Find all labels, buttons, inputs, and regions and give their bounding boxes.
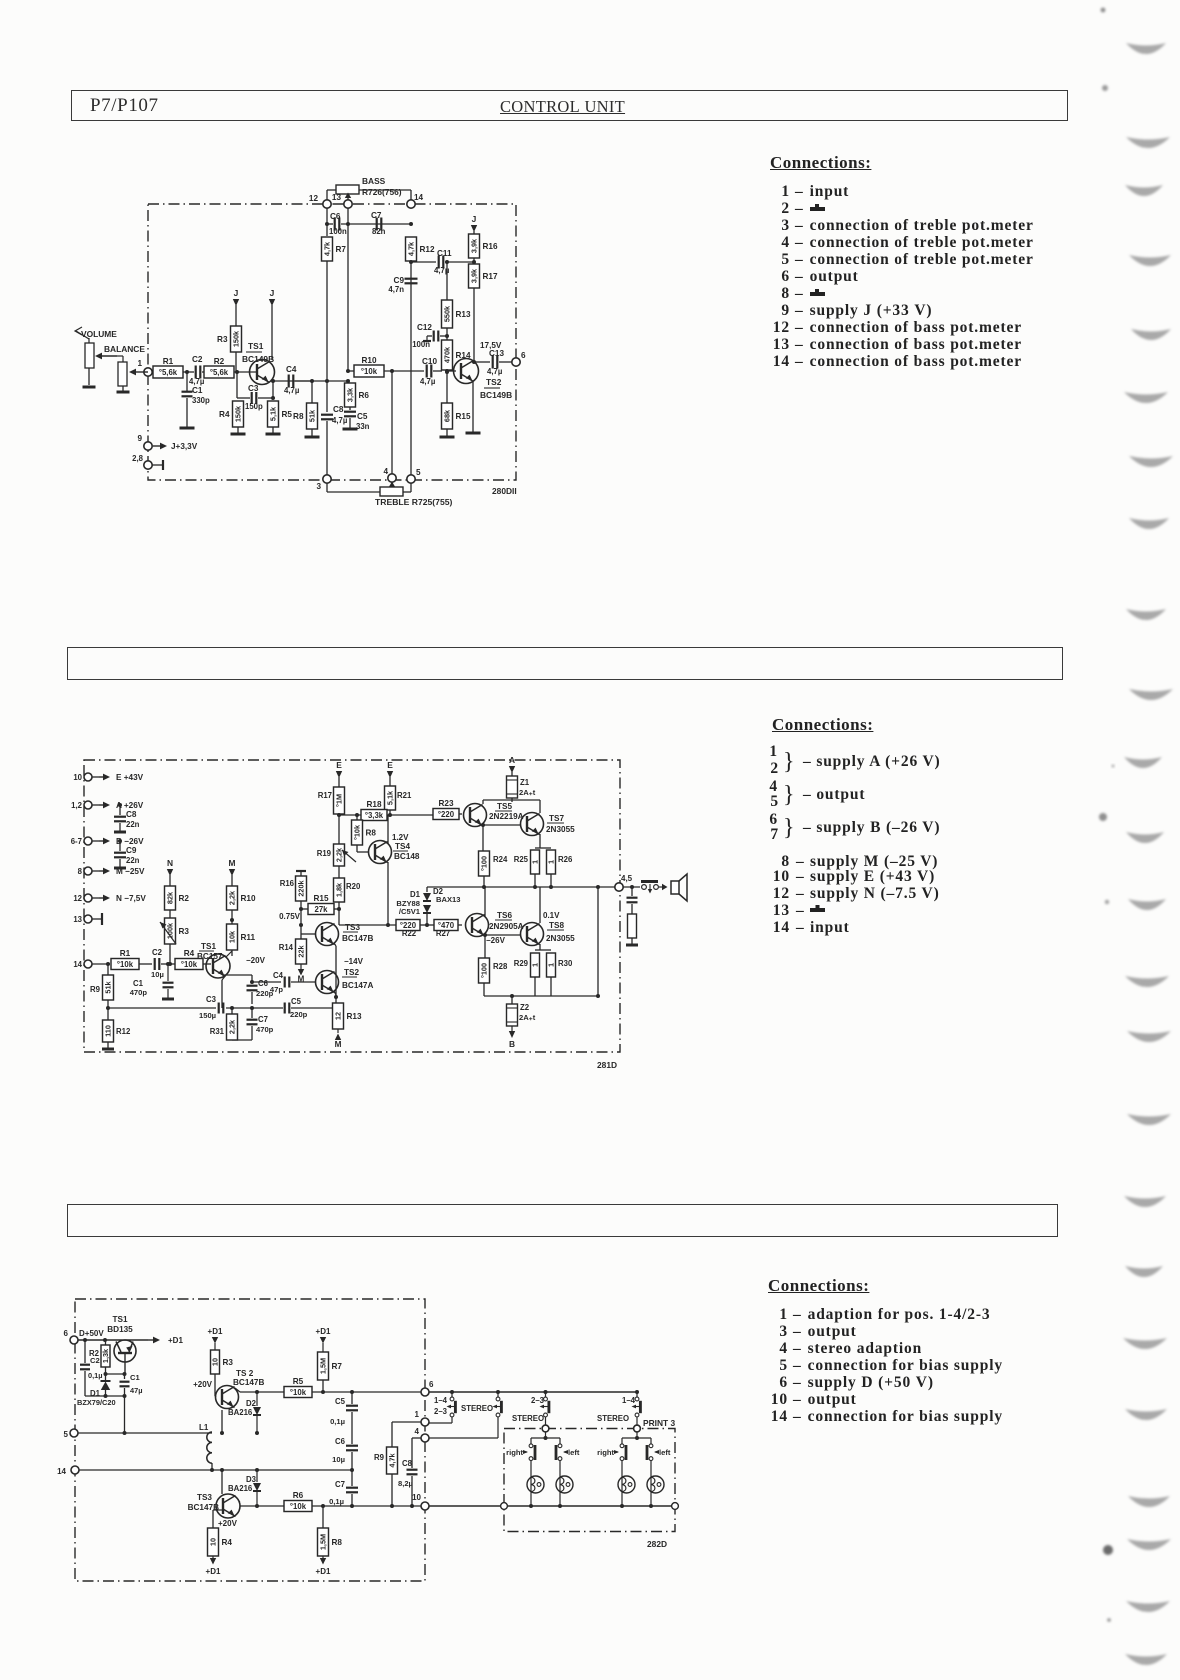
svg-text:100n: 100n [329,227,347,236]
svg-text:N: N [167,858,173,868]
svg-text:10: 10 [73,773,82,782]
svg-text:220k: 220k [297,879,306,896]
svg-text:150p: 150p [245,402,263,411]
svg-text:47µ: 47µ [130,1386,142,1395]
svg-text:281D: 281D [597,1060,617,1070]
svg-text:3,9k: 3,9k [470,238,479,253]
svg-text:1,2: 1,2 [71,801,83,810]
svg-text:−14V: −14V [344,957,364,966]
svg-text:470p: 470p [256,1025,274,1034]
svg-text:6: 6 [521,351,526,360]
svg-text:D1: D1 [410,890,421,899]
svg-text:R14: R14 [279,943,294,952]
svg-text:°10k: °10k [290,1388,307,1397]
svg-text:1: 1 [547,963,556,967]
svg-text:R8: R8 [332,1538,343,1547]
svg-text:R22: R22 [402,929,417,938]
svg-text:TS 2: TS 2 [236,1369,254,1378]
svg-text:BC157: BC157 [197,952,223,961]
svg-text:N −7,5V: N −7,5V [116,894,146,903]
svg-text:22n: 22n [126,820,140,829]
svg-text:R24: R24 [493,855,508,864]
svg-text:°10k: °10k [290,1502,307,1511]
svg-text:1–4: 1–4 [622,1396,636,1405]
svg-text:4: 4 [383,467,388,476]
svg-text:150µ: 150µ [199,1011,216,1020]
svg-text:/C5V1: /C5V1 [399,907,421,916]
svg-text:0,1µ: 0,1µ [88,1371,103,1380]
svg-text:4,7µ: 4,7µ [189,377,205,386]
svg-text:1: 1 [531,963,540,967]
svg-text:C4: C4 [286,365,297,374]
svg-text:R8: R8 [293,412,304,421]
svg-text:2A₊t: 2A₊t [519,1013,536,1022]
svg-text:68k: 68k [443,409,452,422]
svg-text:M: M [335,1040,342,1049]
svg-text:13: 13 [73,915,82,924]
svg-text:R8: R8 [366,829,377,838]
svg-text:27k: 27k [314,905,328,914]
svg-text:BC148: BC148 [394,852,420,861]
svg-text:R10: R10 [241,894,256,903]
svg-text:+D1: +D1 [168,1336,183,1345]
svg-text:C11: C11 [437,249,452,258]
svg-text:22k: 22k [297,944,306,957]
svg-text:BAX13: BAX13 [436,895,460,904]
svg-text:R9: R9 [90,985,101,994]
svg-text:B: B [509,1039,515,1049]
svg-text:R15: R15 [456,412,471,421]
svg-text:C7: C7 [371,211,382,220]
svg-text:1: 1 [415,1410,420,1419]
svg-text:°3,3k: °3,3k [365,811,384,820]
svg-text:R3: R3 [217,335,228,344]
svg-text:C2: C2 [192,355,203,364]
svg-text:BA216: BA216 [228,1408,253,1417]
svg-text:R13: R13 [347,1012,362,1021]
svg-text:R26: R26 [558,855,573,864]
svg-text:BC149B: BC149B [480,390,512,400]
svg-text:R11: R11 [241,933,256,942]
svg-text:R2: R2 [179,894,190,903]
svg-text:110: 110 [104,1025,113,1037]
svg-text:10: 10 [209,1538,218,1546]
svg-text:°1M: °1M [335,794,344,807]
svg-text:R6: R6 [293,1491,304,1500]
svg-text:C5: C5 [335,1397,346,1406]
svg-text:R2: R2 [214,357,225,366]
svg-text:R10: R10 [361,356,376,365]
svg-text:left: left [568,1448,580,1457]
svg-text:TS2: TS2 [344,968,359,977]
svg-text:R16: R16 [483,242,498,251]
svg-text:A: A [509,755,515,765]
svg-text:R4: R4 [222,1538,233,1547]
svg-text:2,2k: 2,2k [335,847,344,862]
svg-text:282D: 282D [647,1539,667,1549]
svg-text:2N3055: 2N3055 [546,934,575,943]
svg-text:+D1: +D1 [206,1567,221,1576]
svg-text:D2: D2 [246,1399,257,1408]
svg-text:4,7n: 4,7n [388,285,404,294]
svg-text:BC147B: BC147B [342,934,373,943]
svg-text:280D: 280D [492,486,512,496]
svg-text:Z2: Z2 [520,1003,530,1012]
svg-text:°100: °100 [480,963,489,978]
svg-text:10: 10 [412,1493,421,1502]
svg-text:C1: C1 [192,386,203,395]
svg-text:1: 1 [531,860,540,864]
svg-text:R25: R25 [514,855,529,864]
svg-text:2–3: 2–3 [434,1407,448,1416]
svg-text:C8: C8 [126,810,137,819]
svg-text:0,1µ: 0,1µ [330,1417,345,1426]
svg-text:C7: C7 [335,1480,345,1489]
svg-text:°5,6k: °5,6k [210,368,229,377]
svg-text:right: right [597,1448,614,1457]
svg-text:C2: C2 [152,948,163,957]
svg-text:TS1: TS1 [201,942,216,951]
svg-text:14: 14 [57,1467,66,1476]
svg-text:TS2: TS2 [486,377,502,387]
svg-text:TS8: TS8 [549,921,564,930]
svg-text:2N3055: 2N3055 [546,825,575,834]
svg-text:12: 12 [73,894,82,903]
svg-text:C9: C9 [126,846,137,855]
svg-text:550k: 550k [443,305,452,322]
svg-text:−20V: −20V [246,956,266,965]
svg-text:J: J [234,288,239,298]
svg-text:BD135: BD135 [107,1325,133,1334]
svg-text:4: 4 [415,1427,420,1436]
svg-text:0.1V: 0.1V [543,911,560,920]
svg-text:12: 12 [309,194,319,203]
svg-text:°10k: °10k [361,367,378,376]
svg-text:+D1: +D1 [208,1327,223,1336]
svg-text:C5: C5 [291,997,302,1006]
svg-text:R4: R4 [184,949,195,958]
svg-text:left: left [659,1448,671,1457]
svg-text:14: 14 [414,193,424,202]
svg-text:6: 6 [429,1380,434,1389]
svg-text:1: 1 [137,359,142,368]
svg-text:C1: C1 [133,979,144,988]
svg-text:1,5M: 1,5M [319,1534,328,1550]
svg-text:R28: R28 [493,962,508,971]
svg-text:10k: 10k [228,930,237,943]
svg-text:TS1: TS1 [248,341,264,351]
svg-text:−26V: −26V [486,936,506,945]
svg-text:R15: R15 [313,894,328,903]
svg-text:TS7: TS7 [549,814,564,823]
svg-text:STEREO: STEREO [461,1404,493,1413]
svg-text:E +43V: E +43V [116,773,144,782]
svg-text:8: 8 [78,867,83,876]
svg-text:R12: R12 [116,1027,131,1036]
svg-text:8,2µ: 8,2µ [398,1479,413,1488]
svg-text:150k: 150k [232,330,241,347]
svg-text:5,1k: 5,1k [269,406,278,421]
svg-text:+20V: +20V [193,1380,213,1389]
svg-text:R27: R27 [436,929,450,938]
svg-text:9: 9 [137,434,142,443]
svg-text:°5,6k: °5,6k [159,368,178,377]
svg-text:10: 10 [211,1358,220,1366]
svg-text:R23: R23 [438,799,453,808]
svg-text:82n: 82n [372,227,386,236]
svg-text:2,8: 2,8 [132,454,144,463]
svg-text:STEREO: STEREO [512,1414,544,1423]
svg-text:22n: 22n [126,856,140,865]
svg-text:2A₊t: 2A₊t [519,788,536,797]
svg-text:R17: R17 [483,272,498,281]
svg-text:R31: R31 [210,1027,225,1036]
svg-text:BALANCE: BALANCE [104,344,145,354]
svg-text:J: J [472,214,477,224]
svg-text:82k: 82k [166,891,175,904]
svg-text:47p: 47p [270,985,283,994]
svg-text:2N2905A: 2N2905A [489,922,524,931]
svg-text:1: 1 [547,860,556,864]
svg-text:R19: R19 [317,849,332,858]
svg-text:470k: 470k [443,346,452,363]
svg-text:E: E [387,760,393,770]
svg-text:13: 13 [332,193,342,202]
svg-text:R4: R4 [219,410,230,419]
svg-text:R1: R1 [120,949,131,958]
svg-text:C10: C10 [422,357,437,366]
svg-text:°10k: °10k [117,960,134,969]
svg-text:TS1: TS1 [112,1315,127,1324]
svg-text:R18: R18 [366,800,381,809]
svg-text:10µ: 10µ [151,970,164,979]
svg-text:C9: C9 [394,276,405,285]
svg-text:C4: C4 [273,971,284,980]
svg-text:3,9k: 3,9k [470,268,479,283]
svg-text:330p: 330p [192,396,210,405]
svg-text:D+50V: D+50V [79,1329,104,1338]
svg-text:470p: 470p [130,988,148,997]
svg-text:3,3k: 3,3k [346,387,355,402]
svg-text:R3: R3 [223,1358,234,1367]
svg-text:TREBLE R725(755): TREBLE R725(755) [375,497,453,507]
svg-text:R1: R1 [163,357,174,366]
svg-text:R30: R30 [558,959,573,968]
svg-text:TS5: TS5 [497,802,512,811]
svg-text:33n: 33n [356,422,370,431]
svg-text:0,1µ: 0,1µ [329,1497,344,1506]
svg-text:100n: 100n [412,340,430,349]
svg-text:12: 12 [334,1012,343,1020]
svg-text:14: 14 [73,960,82,969]
svg-text:+D1: +D1 [316,1567,331,1576]
svg-text:C2: C2 [90,1356,100,1365]
svg-text:R7: R7 [332,1362,343,1371]
svg-text:5,1k: 5,1k [386,790,395,805]
svg-text:°10k: °10k [353,824,362,840]
svg-text:R29: R29 [514,959,529,968]
svg-text:C13: C13 [489,349,504,358]
svg-text:R16: R16 [280,879,295,888]
svg-text:TS6: TS6 [497,911,512,920]
svg-text:BA216: BA216 [228,1484,253,1493]
svg-text:right: right [506,1448,523,1457]
svg-text:5: 5 [64,1430,69,1439]
svg-text:M: M [229,858,236,868]
svg-text:R17: R17 [318,791,332,800]
svg-text:°10k: °10k [181,960,198,969]
svg-text:R13: R13 [456,310,471,319]
svg-text:C1: C1 [130,1373,140,1382]
svg-text:R21: R21 [397,791,412,800]
svg-text:1,5M: 1,5M [319,1358,328,1374]
svg-text:3: 3 [316,482,321,491]
svg-text:1–4: 1–4 [434,1396,448,1405]
svg-text:4,7k: 4,7k [407,241,416,256]
svg-text:+20V: +20V [218,1519,238,1528]
svg-text:R5: R5 [282,410,293,419]
svg-text:4,7µ: 4,7µ [284,386,300,395]
svg-text:51k: 51k [104,980,113,993]
svg-text:°220: °220 [438,810,455,819]
svg-text:C5: C5 [357,412,368,421]
svg-text:II: II [512,486,517,496]
svg-text:2–3: 2–3 [531,1396,545,1405]
svg-text:R7: R7 [336,245,347,254]
svg-text:6-7: 6-7 [71,837,82,846]
svg-text:6: 6 [64,1329,69,1338]
svg-text:BC147A: BC147A [342,981,373,990]
svg-text:C8: C8 [402,1459,413,1468]
svg-text:C12: C12 [417,323,432,332]
svg-text:BZX79/C20: BZX79/C20 [77,1398,116,1407]
svg-text:C8: C8 [333,405,344,414]
svg-text:2N2219A: 2N2219A [489,812,524,821]
svg-text:R20: R20 [346,882,361,891]
svg-text:C7: C7 [258,1015,268,1024]
svg-text:C3: C3 [248,384,259,393]
svg-text:2,2k: 2,2k [228,890,237,905]
svg-text:R12: R12 [420,245,435,254]
svg-text:5: 5 [416,468,421,477]
svg-text:E: E [336,760,342,770]
svg-text:4,7k: 4,7k [388,1452,397,1467]
svg-text:51k: 51k [308,409,317,422]
svg-text:BASS: BASS [362,176,386,186]
svg-text:R3: R3 [179,927,190,936]
svg-text:C6: C6 [335,1437,346,1446]
svg-text:4,5: 4,5 [621,874,633,883]
svg-text:L1: L1 [199,1423,209,1432]
svg-text:4,7µ: 4,7µ [420,377,436,386]
svg-text:150k: 150k [234,405,243,422]
svg-text:BC149B: BC149B [242,354,274,364]
svg-text:STEREO: STEREO [597,1414,629,1423]
svg-text:10µ: 10µ [332,1455,345,1464]
svg-text:TS4: TS4 [395,842,410,851]
svg-text:4,7k: 4,7k [323,241,332,256]
svg-text:°100: °100 [480,856,489,871]
svg-text:R9: R9 [374,1453,385,1462]
svg-text:BC147B: BC147B [188,1503,219,1512]
svg-text:Z1: Z1 [520,778,530,787]
svg-text:J: J [270,288,275,298]
svg-text:TS3: TS3 [197,1493,212,1502]
svg-text:+D1: +D1 [316,1327,331,1336]
svg-text:R726(756): R726(756) [362,187,402,197]
svg-text:1,8k: 1,8k [335,882,344,897]
svg-text:M: M [298,975,305,984]
svg-text:0.75V: 0.75V [279,912,301,921]
svg-text:C3: C3 [206,995,217,1004]
svg-text:1,3k: 1,3k [101,1348,110,1363]
svg-text:4,7µ: 4,7µ [487,367,503,376]
svg-text:PRINT 3: PRINT 3 [643,1418,675,1428]
svg-text:C6: C6 [330,212,341,221]
svg-text:BC147B: BC147B [233,1378,264,1387]
svg-text:R5: R5 [293,1377,304,1386]
svg-text:J+3,3V: J+3,3V [171,442,198,451]
svg-text:220p: 220p [290,1010,308,1019]
svg-text:1.2V: 1.2V [392,833,409,842]
svg-text:D3: D3 [246,1475,257,1484]
svg-text:R6: R6 [359,391,370,400]
svg-text:C6: C6 [258,979,269,988]
svg-text:2,2k: 2,2k [228,1019,237,1034]
